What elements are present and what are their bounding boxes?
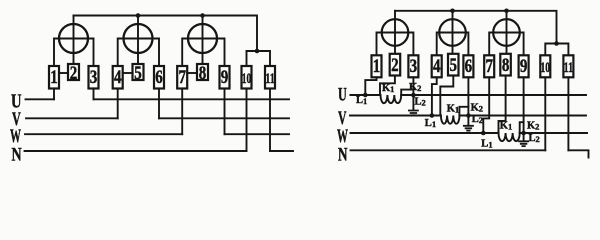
svg-text:3: 3 <box>90 67 98 88</box>
wire W line load side <box>225 133 290 135</box>
wire M1 horizontal leads to terminals 1 and 3 <box>54 39 94 67</box>
wire M5 horizontal leads to terminals 4 and 6 <box>437 33 469 56</box>
wire CT1 K2 jog <box>401 90 413 95</box>
wire terminal 10 drop to N <box>246 89 248 152</box>
wire M5 vertical (top bus to terminal 5) <box>452 11 454 54</box>
wire V line load side <box>159 117 289 119</box>
terminal 3 (right) <box>408 55 418 77</box>
node dot V line / ground <box>466 113 471 118</box>
svg-text:K1: K1 <box>447 104 459 115</box>
terminal 1 (right) <box>372 55 382 77</box>
wire link terminal 1-2 <box>59 72 68 74</box>
wire N line source side (right diagram) <box>351 149 546 151</box>
wire terminal 9 down through W line to ground <box>523 77 525 141</box>
wire link terminal 4-5 <box>123 72 133 74</box>
meter element M1 circle <box>59 24 88 53</box>
svg-text:6: 6 <box>465 56 473 77</box>
terminal 4 <box>113 66 123 89</box>
wire terminal 2 to CT1 K1 <box>380 76 395 96</box>
terminal 10 (right) <box>540 55 550 77</box>
svg-text:9: 9 <box>221 67 229 88</box>
terminal 7 (right) <box>484 55 494 77</box>
svg-text:2: 2 <box>70 63 78 84</box>
wire terminal 9 drop to W <box>224 89 226 135</box>
wire terminal 1 voltage tap to U line <box>365 77 376 95</box>
svg-text:K2: K2 <box>527 121 539 132</box>
wire W line (right diagram) <box>351 132 588 134</box>
svg-text:1: 1 <box>373 56 381 77</box>
svg-text:V: V <box>338 109 347 129</box>
svg-text:5: 5 <box>450 55 458 76</box>
terminal 4 (right) <box>432 55 442 77</box>
terminal 1 <box>49 66 59 89</box>
wire terminal 7 voltage tap to W line <box>483 77 489 133</box>
terminal 9 (right) <box>519 55 529 77</box>
ground (CT3) <box>519 141 528 146</box>
svg-text:K1: K1 <box>382 83 394 94</box>
wire top bus (left diagram) <box>74 16 258 52</box>
wire M1 vertical (top bus to terminal 2) <box>73 16 75 65</box>
svg-text:K2: K2 <box>471 103 483 114</box>
terminal 6 <box>154 66 164 89</box>
wire M2 horizontal leads to terminals 4 and 6 <box>118 39 159 67</box>
wire terminal 11 drop to N <box>269 89 271 152</box>
svg-text:10: 10 <box>242 71 252 87</box>
node dot tap W <box>481 131 486 136</box>
svg-text:L2: L2 <box>472 114 483 125</box>
wire terminal 3 drop to U <box>93 89 95 100</box>
ground (CT1) <box>409 111 418 116</box>
node junction dot connector 10-11 <box>255 49 260 54</box>
wire M6 horizontal leads to terminals 7 and 9 <box>489 33 523 56</box>
wire terminal 1 drop to U <box>53 89 55 100</box>
svg-text:2: 2 <box>391 55 399 76</box>
wire M2 vertical (top bus to terminal 5) <box>137 16 139 65</box>
wire W line source side <box>25 133 182 135</box>
wire U line load side <box>94 98 290 100</box>
meter element M3 circle <box>188 24 217 53</box>
wire terminal 4 drop to V <box>117 89 119 119</box>
ground (CT2) <box>464 126 473 131</box>
wire connector terminals 10-11 (right) <box>545 44 568 56</box>
svg-text:4: 4 <box>433 56 441 77</box>
terminal 5 (right, raised) <box>448 54 459 76</box>
wire V line source side <box>26 117 118 119</box>
svg-text:L2: L2 <box>415 97 426 108</box>
node junction dot top bus / meter M6 <box>504 9 509 14</box>
wire N line load side <box>270 150 293 152</box>
svg-text:5: 5 <box>134 63 142 84</box>
svg-text:3: 3 <box>410 56 418 77</box>
terminal 6 (right) <box>463 55 473 77</box>
node dot tap U <box>363 93 368 98</box>
meter element M2 circle <box>124 24 153 53</box>
svg-text:8: 8 <box>502 55 510 76</box>
node dot W line / ground <box>521 131 526 136</box>
svg-text:N: N <box>338 146 348 166</box>
node junction dot top bus / meter M5 <box>450 9 455 14</box>
wire terminal 6 drop to V <box>158 89 160 119</box>
terminal 8 (raised) <box>197 64 208 80</box>
wire top bus (right diagram) <box>395 11 557 44</box>
wire U line (right diagram) <box>350 94 586 96</box>
terminal 11 <box>265 66 275 89</box>
meter element M4 circle <box>382 19 409 46</box>
svg-text:11: 11 <box>265 71 275 87</box>
wire terminal 11 drop to N (right) <box>567 77 569 150</box>
terminal 11 (right) <box>563 55 573 77</box>
node dot U line / ground <box>411 93 416 98</box>
svg-text:10: 10 <box>541 60 551 76</box>
terminal 8 (right, raised) <box>500 54 511 76</box>
wire U line source side <box>26 98 55 100</box>
wire link terminal 7-8 <box>187 72 197 74</box>
wire M3 vertical (top bus to terminal 8) <box>202 16 204 65</box>
wire N line source side <box>25 150 247 152</box>
svg-text:W: W <box>337 127 348 147</box>
terminal 5 (raised) <box>133 64 144 80</box>
svg-text:L1: L1 <box>356 95 367 106</box>
svg-text:N: N <box>12 145 22 166</box>
svg-text:U: U <box>338 86 347 106</box>
svg-text:4: 4 <box>114 67 122 88</box>
svg-text:1: 1 <box>50 67 58 88</box>
terminal 2 (right, raised) <box>390 54 401 76</box>
wire CT3 K2 jog <box>520 122 524 133</box>
svg-text:8: 8 <box>199 63 207 84</box>
wire terminal 7 drop to W <box>181 89 183 135</box>
svg-text:9: 9 <box>520 56 528 77</box>
meter element M6 circle <box>493 19 520 46</box>
svg-text:K1: K1 <box>500 121 512 132</box>
wire CT2 K2 jog <box>459 107 468 116</box>
wire terminal 3 down through U line to ground <box>412 77 414 110</box>
svg-text:6: 6 <box>155 67 163 88</box>
wire N line load side with end hook (right diagram) <box>568 150 588 157</box>
terminal 7 <box>177 66 187 89</box>
wire terminal 8 to CT3 K1 <box>499 76 506 134</box>
wire M6 vertical (top bus to terminal 8) <box>506 11 508 54</box>
svg-text:L1: L1 <box>481 139 492 150</box>
terminal 2 (raised) <box>68 64 79 80</box>
terminal 9 <box>220 66 230 89</box>
svg-text:7: 7 <box>485 56 493 77</box>
svg-text:K2: K2 <box>409 82 421 93</box>
wire V line (right diagram) <box>350 115 586 117</box>
svg-text:7: 7 <box>178 67 186 88</box>
terminal 10 <box>242 66 252 89</box>
CT3 secondary coil on W line <box>499 133 520 141</box>
wire connector terminals 10-11 <box>247 51 271 66</box>
wire M3 horizontal leads to terminals 7 and 9 <box>182 39 224 67</box>
meter element M5 circle <box>439 19 466 46</box>
wire M4 vertical (top bus to terminal 2) <box>394 11 396 54</box>
node junction dot top bus / meter M3 <box>200 13 205 18</box>
wire terminal 5 to CT2 K1 <box>440 76 453 116</box>
CT2 secondary coil on V line <box>441 116 460 124</box>
wire terminal 6 down through V line to ground <box>467 77 469 125</box>
node junction dot top bus / meter M2 <box>136 13 141 18</box>
CT1 secondary coil on U line <box>380 95 401 103</box>
terminal 3 <box>89 66 99 89</box>
svg-text:11: 11 <box>564 60 574 76</box>
wire M4 horizontal leads to terminals 1 and 3 <box>377 33 414 56</box>
svg-text:L1: L1 <box>425 118 436 129</box>
node dot tap V <box>430 113 435 118</box>
svg-text:L2: L2 <box>529 133 540 144</box>
node junction dot connector 10-11 <box>554 41 559 46</box>
wire terminal 4 voltage tap to V line <box>432 77 437 115</box>
wire terminal 10 drop to N (right) <box>544 77 546 150</box>
